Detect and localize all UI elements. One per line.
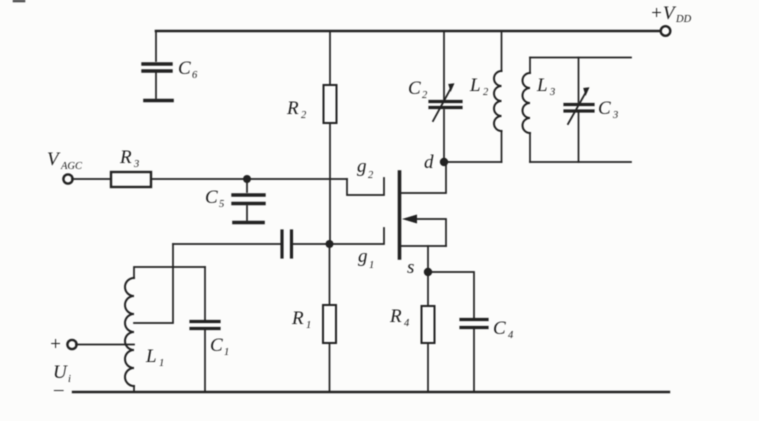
node g1 junction <box>326 240 334 248</box>
wire R3 to g2 <box>151 178 347 180</box>
wire R1 to ground <box>329 343 331 392</box>
svg-text:1: 1 <box>224 347 229 358</box>
wire substrate arrow <box>414 219 446 246</box>
capacitor coupling (to g1) <box>173 243 280 245</box>
wire C3 drop <box>578 58 580 103</box>
resistor R1 <box>323 305 336 343</box>
wire g2 lead <box>347 178 384 195</box>
svg-text:R: R <box>286 98 299 119</box>
wire C1 to ground <box>204 330 206 392</box>
svg-text:R: R <box>291 308 304 329</box>
svg-text:+: + <box>49 334 62 355</box>
svg-text:2: 2 <box>483 87 489 98</box>
wire <box>72 178 111 180</box>
wire input <box>76 344 134 346</box>
svg-text:2: 2 <box>422 90 428 101</box>
wire R4 to ground <box>427 343 429 392</box>
svg-text:1: 1 <box>159 358 164 369</box>
svg-text:R: R <box>119 147 132 168</box>
resistor R4 <box>422 306 435 343</box>
svg-text:L: L <box>145 346 157 367</box>
wire C6 drop <box>155 31 157 61</box>
svg-text:3: 3 <box>549 87 555 98</box>
capacitor C4 <box>461 318 487 321</box>
wire <box>246 206 248 220</box>
svg-text:C: C <box>205 187 218 208</box>
svg-text:4: 4 <box>404 318 410 329</box>
resistor R2 <box>324 85 337 123</box>
svg-text:R: R <box>389 306 402 327</box>
wire secondary bottom <box>530 161 631 163</box>
svg-text:+V: +V <box>650 3 677 24</box>
svg-text:g: g <box>357 156 367 177</box>
svg-text:C: C <box>210 335 223 356</box>
wire <box>529 133 531 162</box>
inductor L2 <box>494 71 502 131</box>
capacitor C1 <box>191 320 219 323</box>
wire R4 drop <box>427 272 429 306</box>
svg-text:3: 3 <box>133 159 139 170</box>
wire L2 top lead <box>501 31 503 71</box>
svg-text:1: 1 <box>306 320 311 331</box>
svg-text:AGC: AGC <box>60 161 83 172</box>
ground (C5) <box>234 221 263 225</box>
capacitor C2 (variable) <box>430 100 461 103</box>
wire L2 bottom lead <box>501 131 503 162</box>
wire g1 lead <box>330 228 385 244</box>
svg-text:g: g <box>358 246 368 267</box>
svg-text:d: d <box>424 152 434 173</box>
node s <box>424 268 432 276</box>
wire d to L2 <box>444 161 502 163</box>
wire <box>529 58 531 74</box>
svg-text:s: s <box>407 257 414 278</box>
svg-text:V: V <box>47 149 61 170</box>
svg-text:5: 5 <box>219 199 224 210</box>
svg-text:DD: DD <box>675 14 692 25</box>
wire <box>155 73 157 98</box>
svg-text:L: L <box>536 75 548 96</box>
wire R2 drop <box>329 31 331 85</box>
wire secondary top <box>530 57 631 59</box>
svg-text:2: 2 <box>301 110 307 121</box>
svg-text:1: 1 <box>369 260 374 271</box>
svg-text:C: C <box>408 78 421 99</box>
wire L1 top <box>134 267 205 278</box>
svg-text:4: 4 <box>508 330 514 341</box>
inductor L3 <box>523 73 530 133</box>
wire C2 drop <box>443 31 445 99</box>
wire R1 drop <box>329 244 331 305</box>
svg-text:i: i <box>68 374 71 385</box>
+VDD terminal <box>661 26 671 36</box>
capacitor C3 (variable) <box>565 103 593 106</box>
svg-text:6: 6 <box>192 70 198 81</box>
svg-text:C: C <box>598 98 611 119</box>
inductor L1 <box>125 278 134 386</box>
wire C1 drop <box>204 267 206 320</box>
resistor R3 <box>111 172 151 187</box>
svg-text:2: 2 <box>368 170 374 181</box>
wire top rail <box>156 30 659 33</box>
svg-text:3: 3 <box>612 110 618 121</box>
wire L1 bottom <box>133 386 135 392</box>
svg-text:–: – <box>53 379 64 400</box>
node d <box>440 158 448 166</box>
wire source lead <box>401 245 446 247</box>
wire C2 to d <box>443 110 445 162</box>
wire s to C4 <box>428 272 474 318</box>
input terminal <box>67 340 76 349</box>
wire C5 stem <box>246 179 248 192</box>
capacitor C6 <box>143 62 171 65</box>
ground (C6) <box>145 99 172 103</box>
node C5 junction <box>243 175 251 183</box>
svg-text:C: C <box>493 318 506 339</box>
wire tank riser <box>134 244 173 323</box>
scan mark top left <box>14 0 24 2</box>
transistor VT channel bar <box>398 172 402 258</box>
svg-text:C: C <box>178 58 191 79</box>
wire R2 to g1 node <box>329 123 331 244</box>
VAGC terminal <box>63 174 72 183</box>
svg-text:L: L <box>469 75 481 96</box>
wire C4 to ground <box>473 329 475 392</box>
wire C3 to bottom <box>578 113 580 162</box>
wire source riser <box>427 246 429 272</box>
capacitor C5 <box>233 193 264 196</box>
wire drain lead <box>401 162 446 193</box>
wire ground rail <box>73 391 669 393</box>
